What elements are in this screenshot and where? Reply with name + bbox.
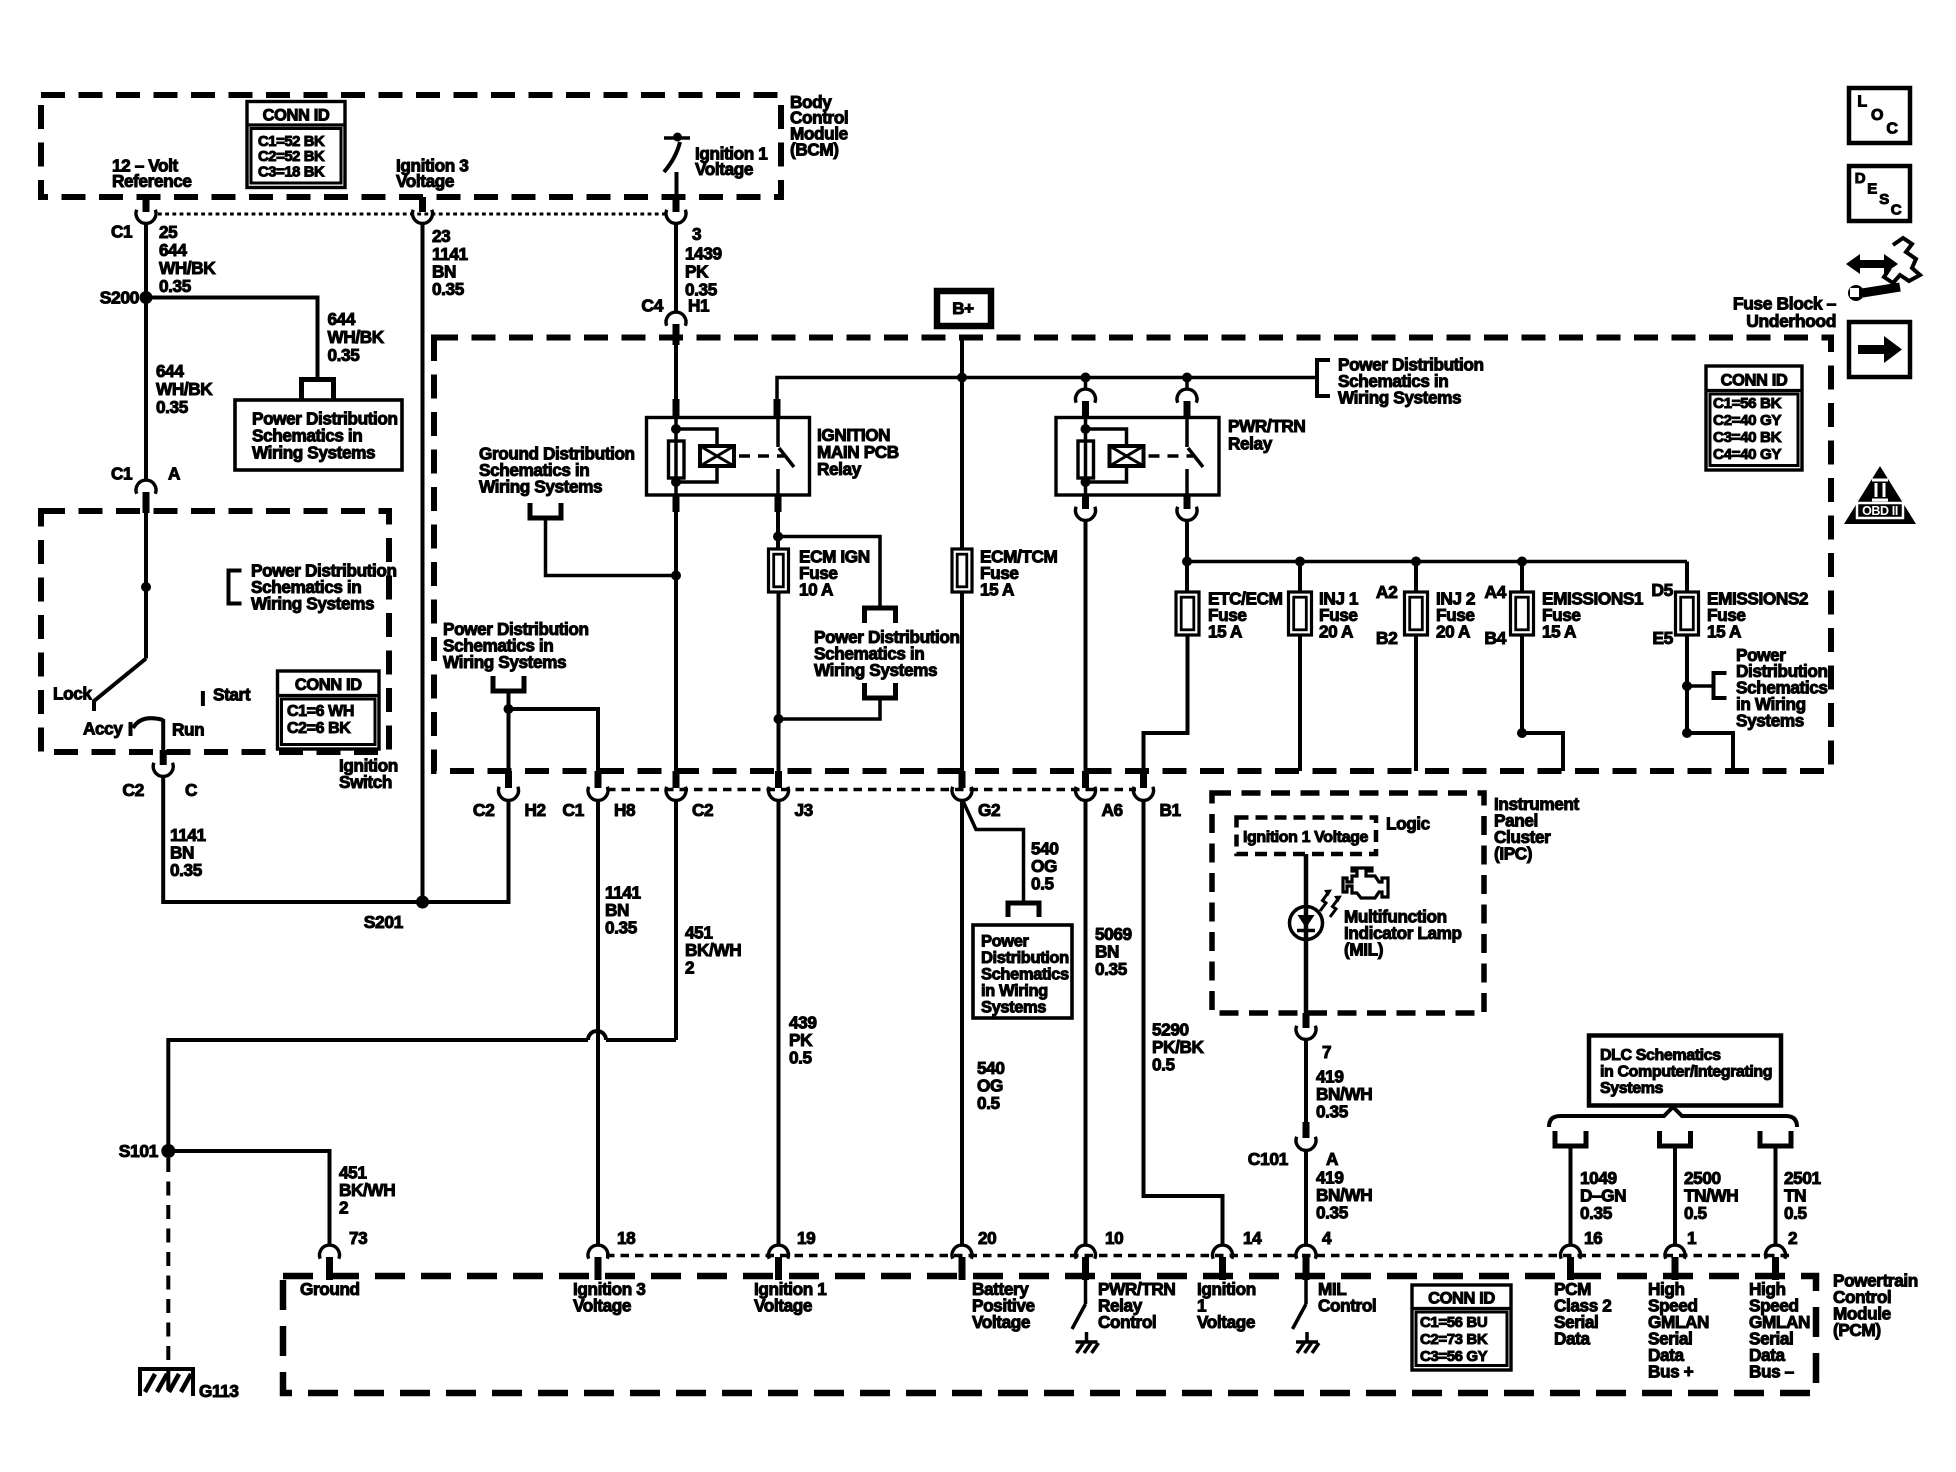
svg-text:0.35: 0.35 — [1316, 1102, 1349, 1122]
svg-text:E5: E5 — [1652, 628, 1673, 648]
svg-text:A6: A6 — [1102, 800, 1123, 820]
svg-text:OBD II: OBD II — [1862, 504, 1898, 518]
icon: schematic navigation (arrow and wrench) — [1846, 254, 1860, 274]
svg-text:Logic: Logic — [1386, 814, 1431, 834]
svg-text:Accy: Accy — [83, 719, 123, 739]
svg-text:WH/BK: WH/BK — [159, 258, 216, 278]
wire: 451 BK/WH to S101 — [606, 1038, 676, 1042]
svg-text:C4=40 GY: C4=40 GY — [1713, 446, 1781, 463]
wire: 1141 BN from H8 to PCM pin 18 — [596, 800, 600, 1245]
wire: 419 BN/WH from C101 to PCM pin 4 — [1304, 1151, 1308, 1246]
svg-text:C1: C1 — [111, 464, 133, 484]
svg-text:WH/BK: WH/BK — [328, 327, 385, 347]
fuse: INJ 1 20A — [1295, 557, 1305, 567]
lamp light arrows — [1320, 893, 1328, 911]
wire: 1141 BN from C2/C to S201 — [163, 777, 422, 903]
wire: 1141 BN from BCM pin 23 to S201 — [421, 224, 425, 903]
wire: 644 WH/BK from C1 to S200 — [144, 224, 148, 303]
svg-text:644: 644 — [159, 240, 187, 260]
PCM pin 19: Ignition 1 Voltage — [768, 1245, 788, 1259]
wire: PWR/TRN switch output to fuses — [1185, 521, 1189, 593]
svg-text:C2=6 BK: C2=6 BK — [287, 720, 351, 737]
wire: S101 to G113 (dashed) — [166, 1158, 170, 1367]
splice S101 — [161, 1144, 175, 1158]
svg-text:D5: D5 — [1651, 580, 1673, 600]
connector pin 7 (IPC) — [1303, 1013, 1310, 1028]
connector B1 — [1140, 771, 1147, 788]
svg-text:C: C — [1891, 201, 1902, 218]
svg-text:B1: B1 — [1160, 800, 1182, 820]
svg-text:20 A: 20 A — [1319, 622, 1353, 642]
wire: MIL to IPC pin 7 — [1304, 938, 1309, 1013]
svg-text:D: D — [1855, 170, 1866, 187]
svg-text:C1: C1 — [562, 800, 584, 820]
svg-text:in Computer/Integrating: in Computer/Integrating — [1600, 1064, 1772, 1081]
svg-text:Relay: Relay — [817, 459, 862, 479]
in-line connector C4/H1 — [666, 312, 686, 326]
svg-text:CONN ID: CONN ID — [295, 676, 362, 694]
svg-text:C3=40 BK: C3=40 BK — [1713, 429, 1782, 446]
svg-text:Voltage: Voltage — [573, 1296, 631, 1316]
wire: S200 branch to Power Distribution — [146, 298, 318, 379]
svg-text:15 A: 15 A — [1707, 622, 1741, 642]
connector C2 (451 circuit) — [673, 771, 680, 788]
svg-text:0.35: 0.35 — [1095, 959, 1128, 979]
svg-text:20 A: 20 A — [1436, 622, 1470, 642]
wire: 439 PK from J3 to PCM pin 19 — [777, 800, 781, 1245]
svg-text:Schematics: Schematics — [981, 965, 1069, 983]
svg-text:Bus –: Bus – — [1749, 1362, 1795, 1382]
svg-text:Power: Power — [981, 932, 1029, 950]
svg-text:15 A: 15 A — [1208, 622, 1242, 642]
svg-text:A4: A4 — [1484, 582, 1506, 602]
brace — [1549, 1107, 1797, 1127]
svg-text:0.35: 0.35 — [1580, 1203, 1613, 1223]
svg-text:Ignition 1 Voltage: Ignition 1 Voltage — [1243, 829, 1368, 846]
svg-text:0.35: 0.35 — [159, 276, 192, 296]
svg-text:O: O — [1871, 107, 1883, 124]
svg-text:A: A — [1326, 1149, 1338, 1169]
wire: Ignition 1 voltage from BCM pin 3 to C4/H1 — [674, 224, 678, 313]
PWR/TRN relay bottom terminals — [1082, 495, 1089, 509]
svg-text:Lock: Lock — [53, 684, 92, 704]
fuse: ETC/ECM 15A — [1176, 592, 1199, 635]
svg-text:Run: Run — [172, 720, 204, 740]
svg-text:Start: Start — [213, 685, 251, 705]
svg-text:0.35: 0.35 — [1316, 1203, 1349, 1223]
connector C1/H8 — [595, 771, 602, 788]
svg-text:10: 10 — [1105, 1228, 1123, 1248]
svg-text:PK: PK — [685, 262, 709, 282]
svg-text:B4: B4 — [1484, 628, 1506, 648]
svg-text:C1: C1 — [111, 222, 133, 242]
wire: PWR/TRN coil output to A6 — [1084, 521, 1088, 772]
wire: MIL feed inside IPC — [1304, 854, 1309, 908]
svg-text:A: A — [168, 464, 180, 484]
reference box: Power Distribution Schematics in Wiring Systems — [235, 400, 402, 470]
svg-text:0.35: 0.35 — [605, 918, 638, 938]
DLC pageref 1049 — [1555, 1131, 1586, 1146]
svg-text:2: 2 — [1788, 1228, 1797, 1248]
svg-text:10 A: 10 A — [799, 580, 833, 600]
fuse row feed line — [1187, 560, 1687, 564]
contact Accy — [129, 722, 133, 736]
wire: 644 WH/BK from S200 down to C1/A — [144, 298, 148, 482]
wire: 419 BN/WH from IPC to C101 — [1304, 1040, 1308, 1123]
wire hop over H8 wire — [588, 1031, 606, 1040]
svg-text:S200: S200 — [100, 288, 140, 308]
svg-text:C: C — [185, 780, 197, 800]
svg-text:H8: H8 — [614, 800, 636, 820]
relay feed line from B+ — [777, 378, 1317, 402]
connector C2 pin C (ignition switch) — [160, 750, 167, 765]
svg-text:Voltage: Voltage — [754, 1296, 812, 1316]
svg-text:Voltage: Voltage — [972, 1312, 1030, 1332]
svg-text:0.35: 0.35 — [156, 397, 189, 417]
icon: LOC — [1849, 88, 1910, 143]
PWR/TRN relay control driver (switch to ground) — [1084, 1280, 1088, 1304]
svg-text:Underhood: Underhood — [1746, 311, 1836, 331]
logic box: Ignition 1 Voltage — [1237, 818, 1377, 855]
svg-text:Data: Data — [1554, 1329, 1590, 1349]
svg-text:16: 16 — [1584, 1228, 1602, 1248]
fuse: ECM/TCM 15A — [952, 549, 972, 592]
svg-text:14: 14 — [1243, 1228, 1262, 1248]
svg-text:(BCM): (BCM) — [790, 140, 839, 160]
relay switch (PWR/TRN) — [1185, 418, 1189, 447]
svg-text:Wiring Systems: Wiring Systems — [443, 652, 566, 672]
wire: EMISSIONS2 output — [1685, 635, 1689, 733]
connector pin 23 (BCM) — [419, 197, 426, 212]
svg-text:DLC Schematics: DLC Schematics — [1600, 1047, 1721, 1064]
wire: ign1 coil return down to C2 connector — [674, 512, 678, 771]
svg-text:1439: 1439 — [685, 244, 722, 264]
relay K: PWR/TRN Relay box — [1056, 418, 1219, 496]
svg-text:644: 644 — [156, 361, 184, 381]
svg-text:C2: C2 — [473, 800, 495, 820]
PWR/TRN relay top terminals — [1081, 373, 1091, 383]
svg-text:G113: G113 — [199, 1381, 239, 1401]
svg-text:Reference: Reference — [112, 171, 192, 191]
svg-text:Wiring Systems: Wiring Systems — [479, 477, 602, 497]
svg-text:Voltage: Voltage — [1197, 1312, 1255, 1332]
PCM pin 18: Ignition 3 Voltage — [588, 1245, 608, 1259]
wire: 451 BK/WH from C2 to S101 line — [674, 800, 678, 1040]
svg-text:Voltage: Voltage — [695, 159, 753, 179]
wire: INJ 1 output — [1298, 635, 1302, 771]
svg-text:A2: A2 — [1376, 582, 1398, 602]
svg-text:C2: C2 — [122, 780, 144, 800]
svg-text:(MIL): (MIL) — [1344, 940, 1383, 960]
PCM pin 73: Ground — [320, 1245, 340, 1259]
PCM pin 10: PWR/TRN Relay Control — [1076, 1245, 1096, 1259]
wire: S201 to H2 — [423, 800, 509, 902]
reference box: DLC Schematics in Computer/Integrating Systems — [1589, 1036, 1781, 1106]
wire: branch rejoins fuse output — [778, 698, 880, 719]
PCM pin 14: Ignition 1 Voltage (pin 14) — [1213, 1245, 1233, 1259]
svg-text:CONN ID: CONN ID — [263, 106, 330, 124]
fuse: EMISSIONS2 15A — [1685, 562, 1689, 593]
svg-text:C2=40 GY: C2=40 GY — [1713, 412, 1781, 429]
svg-text:0.35: 0.35 — [170, 860, 203, 880]
svg-text:Wiring Systems: Wiring Systems — [251, 594, 374, 614]
svg-text:C: C — [1886, 121, 1898, 138]
relay mechanical link (dashed) — [739, 454, 784, 458]
page reference bracket (EMISSIONS2) — [1687, 684, 1714, 688]
svg-text:E: E — [1867, 180, 1877, 197]
svg-text:0.5: 0.5 — [1152, 1055, 1176, 1075]
svg-text:0.5: 0.5 — [977, 1093, 1001, 1113]
svg-text:C1=56 BK: C1=56 BK — [1713, 395, 1782, 412]
wire: 1141 branch to H2 and H8 — [507, 691, 511, 771]
fuse: ECM IGN 10A — [769, 549, 789, 592]
wire: EMISSIONS1 output — [1522, 635, 1563, 771]
relay K: IGNITION MAIN PCB Relay box — [647, 418, 810, 496]
page reference symbol — [302, 380, 334, 400]
ignition switch internal wire — [144, 513, 148, 659]
wire: ETC/ECM output to B1 — [1144, 635, 1188, 771]
svg-text:2: 2 — [685, 958, 694, 978]
svg-text:S101: S101 — [119, 1141, 159, 1161]
wire: ECM IGN feed from relay — [776, 510, 780, 550]
relay switch (IGNITION MAIN PCB) — [776, 418, 780, 447]
svg-text:(PCM): (PCM) — [1833, 1320, 1881, 1340]
page reference bracket (relay feed) — [1317, 360, 1330, 396]
svg-text:4: 4 — [1322, 1228, 1332, 1248]
icon: DESC — [1849, 166, 1910, 221]
svg-text:Wiring Systems: Wiring Systems — [814, 660, 937, 680]
wire: ign1 coil return branch — [546, 518, 677, 576]
svg-text:CONN ID: CONN ID — [1428, 1289, 1495, 1307]
connector G2 — [959, 771, 966, 788]
svg-text:H2: H2 — [525, 800, 546, 820]
fuse: INJ 2 20A — [1411, 557, 1421, 567]
BCM connector row dotted line — [158, 213, 667, 216]
svg-text:C3=56 GY: C3=56 GY — [1420, 1348, 1488, 1365]
relay coil (PWR/TRN) — [1084, 418, 1088, 495]
DLC pageref 2501 — [1760, 1131, 1791, 1146]
svg-text:1: 1 — [1687, 1228, 1697, 1248]
svg-text:C1=6 WH: C1=6 WH — [287, 703, 354, 720]
svg-text:L: L — [1857, 94, 1867, 111]
svg-text:Switch: Switch — [339, 772, 392, 792]
svg-text:C1=56 BU: C1=56 BU — [1420, 1314, 1487, 1331]
wire: S101 to PCM pin 73 (Ground) — [168, 1151, 329, 1245]
svg-text:C2=73 BK: C2=73 BK — [1420, 1331, 1488, 1348]
PCM pin 20: Battery Positive Voltage — [952, 1245, 972, 1259]
svg-text:C3=18 BK: C3=18 BK — [258, 164, 325, 180]
PCM CONN ID table — [1412, 1285, 1511, 1370]
svg-text:Control: Control — [1318, 1296, 1376, 1316]
svg-text:Control: Control — [1098, 1312, 1156, 1332]
wire: ECM IGN fuse output to J3 — [777, 592, 781, 771]
svg-text:G2: G2 — [978, 800, 1000, 820]
svg-text:3: 3 — [692, 224, 701, 244]
svg-text:15 A: 15 A — [1542, 622, 1576, 642]
svg-text:S: S — [1879, 191, 1889, 208]
relay coil (IGNITION MAIN PCB) — [674, 418, 678, 495]
svg-text:Relay: Relay — [1228, 434, 1273, 454]
svg-text:15 A: 15 A — [980, 580, 1014, 600]
in-line connector C101 pin A — [1303, 1122, 1310, 1138]
BCM internal switch: Ignition 1 Voltage — [664, 136, 690, 140]
PCM pin 16: PCM Class 2 Serial Data — [1561, 1245, 1581, 1259]
connector pin 3 (BCM) — [673, 197, 680, 212]
ground G113 — [140, 1367, 193, 1371]
svg-text:0.35: 0.35 — [432, 279, 465, 299]
wire: B+ from ECM/TCM fuse down to G2 — [960, 592, 964, 771]
svg-text:2: 2 — [339, 1198, 348, 1218]
svg-text:0.5: 0.5 — [1031, 874, 1055, 894]
svg-text:0.5: 0.5 — [1684, 1203, 1708, 1223]
wire: battery positive from G2 to PCM pin 20 — [960, 800, 964, 1245]
fuse: EMISSIONS1 15A — [1517, 557, 1527, 567]
ignition switch CONN ID table — [278, 671, 380, 749]
svg-text:J3: J3 — [795, 800, 813, 820]
BCM CONN ID table — [247, 102, 345, 188]
connector A6 — [1082, 771, 1089, 788]
svg-text:Voltage: Voltage — [396, 171, 454, 191]
connector C1 pin A (ignition switch) — [136, 480, 156, 494]
svg-text:C4: C4 — [641, 296, 663, 316]
reference box: Power Distribution Schematics in Wiring Systems (G2) — [973, 925, 1072, 1018]
svg-text:C2=52 BK: C2=52 BK — [258, 149, 325, 165]
svg-text:0.5: 0.5 — [1784, 1203, 1808, 1223]
wire: 1439 PK into relay — [674, 344, 678, 401]
splice S201 — [416, 896, 429, 909]
PCM pin 1: High Speed GMLAN Serial Data Bus + — [1665, 1245, 1685, 1259]
module box: Body Control Module (BCM) — [41, 95, 781, 197]
svg-text:Systems: Systems — [1600, 1080, 1664, 1097]
svg-text:C2: C2 — [692, 800, 713, 820]
MIL control driver (switch to ground) — [1304, 1280, 1308, 1304]
page reference bracket — [229, 571, 242, 604]
PCM pin 4: MIL Control — [1296, 1245, 1316, 1259]
svg-text:25: 25 — [159, 222, 178, 242]
DLC pageref 2500 — [1660, 1131, 1691, 1146]
svg-text:Distribution: Distribution — [981, 949, 1069, 967]
svg-text:20: 20 — [978, 1228, 996, 1248]
wire: 5069 BN from A6 to PCM pin 10 — [1084, 800, 1088, 1245]
svg-text:644: 644 — [328, 309, 356, 329]
wire: 5290 PK/BK from B1 to PCM pin 14 — [1144, 800, 1223, 1245]
svg-text:CONN ID: CONN ID — [1721, 371, 1788, 389]
power node B+ — [937, 291, 991, 326]
svg-text:Systems: Systems — [1736, 711, 1804, 731]
PCM connector row dotted line — [606, 1254, 1790, 1258]
svg-text:0.5: 0.5 — [789, 1048, 813, 1068]
connector C1 pin 25 (BCM) — [143, 197, 150, 212]
module box: Ignition Switch — [41, 511, 389, 752]
svg-text:B+: B+ — [952, 299, 974, 318]
svg-text:C101: C101 — [1248, 1149, 1289, 1169]
svg-text:73: 73 — [349, 1228, 367, 1248]
svg-text:23: 23 — [432, 226, 450, 246]
connector J3 — [775, 771, 782, 788]
icon: OBD II — [1844, 466, 1916, 524]
svg-text:Ground: Ground — [300, 1279, 360, 1299]
Run contact wire to C2/C — [133, 718, 163, 728]
svg-text:S201: S201 — [364, 912, 404, 932]
contact Start — [201, 691, 205, 706]
module box: Fuse Block - Underhood — [434, 338, 1831, 772]
fuse block CONN ID table — [1706, 366, 1802, 470]
svg-text:Systems: Systems — [981, 998, 1046, 1016]
svg-text:H1: H1 — [688, 296, 710, 316]
svg-text:in Wiring: in Wiring — [981, 982, 1048, 1000]
svg-text:Wiring Systems: Wiring Systems — [1338, 388, 1461, 408]
PCM pin 2: High Speed GMLAN Serial Data Bus - — [1766, 1245, 1786, 1259]
svg-text:7: 7 — [1322, 1042, 1331, 1062]
wire: branch to power distribution (upper) — [778, 537, 880, 609]
ignition switch wiper to Lock — [94, 659, 146, 702]
wire: INJ 2 output — [1414, 635, 1418, 771]
indicator lamp MIL (LED) — [1290, 907, 1323, 940]
svg-text:Bus +: Bus + — [1648, 1362, 1694, 1382]
wire: 1141 BN from H2 (drawn with S201 branch) — [507, 800, 511, 902]
svg-text:18: 18 — [617, 1228, 636, 1248]
svg-text:0.35: 0.35 — [328, 345, 361, 365]
svg-text:C1=52 BK: C1=52 BK — [258, 134, 325, 150]
svg-text:B2: B2 — [1376, 628, 1398, 648]
icon: continue arrow — [1849, 322, 1910, 377]
splice S200 — [140, 291, 153, 304]
svg-text:(IPC): (IPC) — [1494, 844, 1532, 864]
module box: Powertrain Control Module (PCM) — [283, 1276, 1816, 1393]
connector C2/H2 — [505, 771, 512, 788]
wire: G2 branch to power distribution — [963, 801, 1024, 903]
relay mechanical link (dashed, PWR/TRN) — [1149, 454, 1194, 458]
junction on B+ at relay feed — [957, 373, 967, 383]
svg-text:19: 19 — [797, 1228, 815, 1248]
module box: Instrument Panel Cluster (IPC) — [1212, 793, 1484, 1013]
wire: B+ battery feed down — [960, 338, 964, 550]
svg-text:Wiring Systems: Wiring Systems — [252, 443, 375, 463]
relay bottom stubs — [673, 495, 680, 512]
fuse block connector row dotted line — [607, 788, 1136, 792]
engine icon — [1343, 868, 1388, 898]
svg-text:WH/BK: WH/BK — [156, 379, 213, 399]
